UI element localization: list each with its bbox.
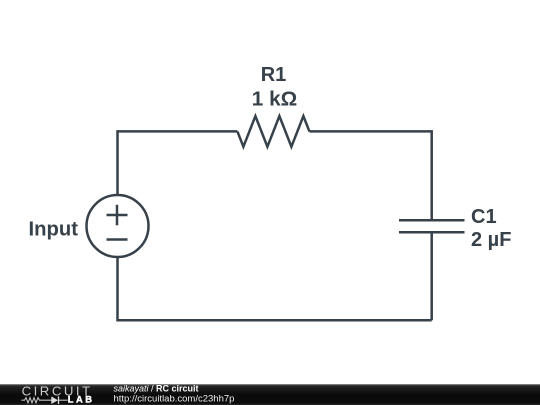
svg-text:1 kΩ: 1 kΩ (252, 89, 297, 111)
logo mini circuit wire (22, 398, 68, 403)
minus sign of source (107, 238, 128, 241)
footer bar (0, 384, 540, 405)
svg-text:saikayati / RC circuit: saikayati / RC circuit (114, 384, 199, 394)
svg-text:C1: C1 (471, 206, 497, 228)
resistor R1 (237, 116, 309, 147)
capacitor C1 top plate (399, 219, 465, 222)
logo diode cathode bar (58, 396, 60, 404)
voltage source (Input) circle (87, 195, 149, 257)
capacitor C1 bottom plate (399, 231, 465, 234)
svg-text:2 µF: 2 µF (471, 229, 511, 251)
wire top-right (R1 to C1) (309, 131, 431, 220)
wire top-left (node from source to R1) (118, 131, 238, 195)
wire right-bottom (C1 to bottom rail) (430, 232, 433, 320)
logo diode triangle (51, 396, 58, 404)
svg-text:R1: R1 (261, 64, 287, 86)
svg-text:http://circuitlab.com/c23hh7p: http://circuitlab.com/c23hh7p (114, 394, 235, 405)
svg-text:Input: Input (29, 218, 79, 240)
plus sign of source (107, 214, 128, 217)
svg-text:LAB: LAB (68, 395, 92, 405)
wire bottom rail (118, 257, 432, 320)
